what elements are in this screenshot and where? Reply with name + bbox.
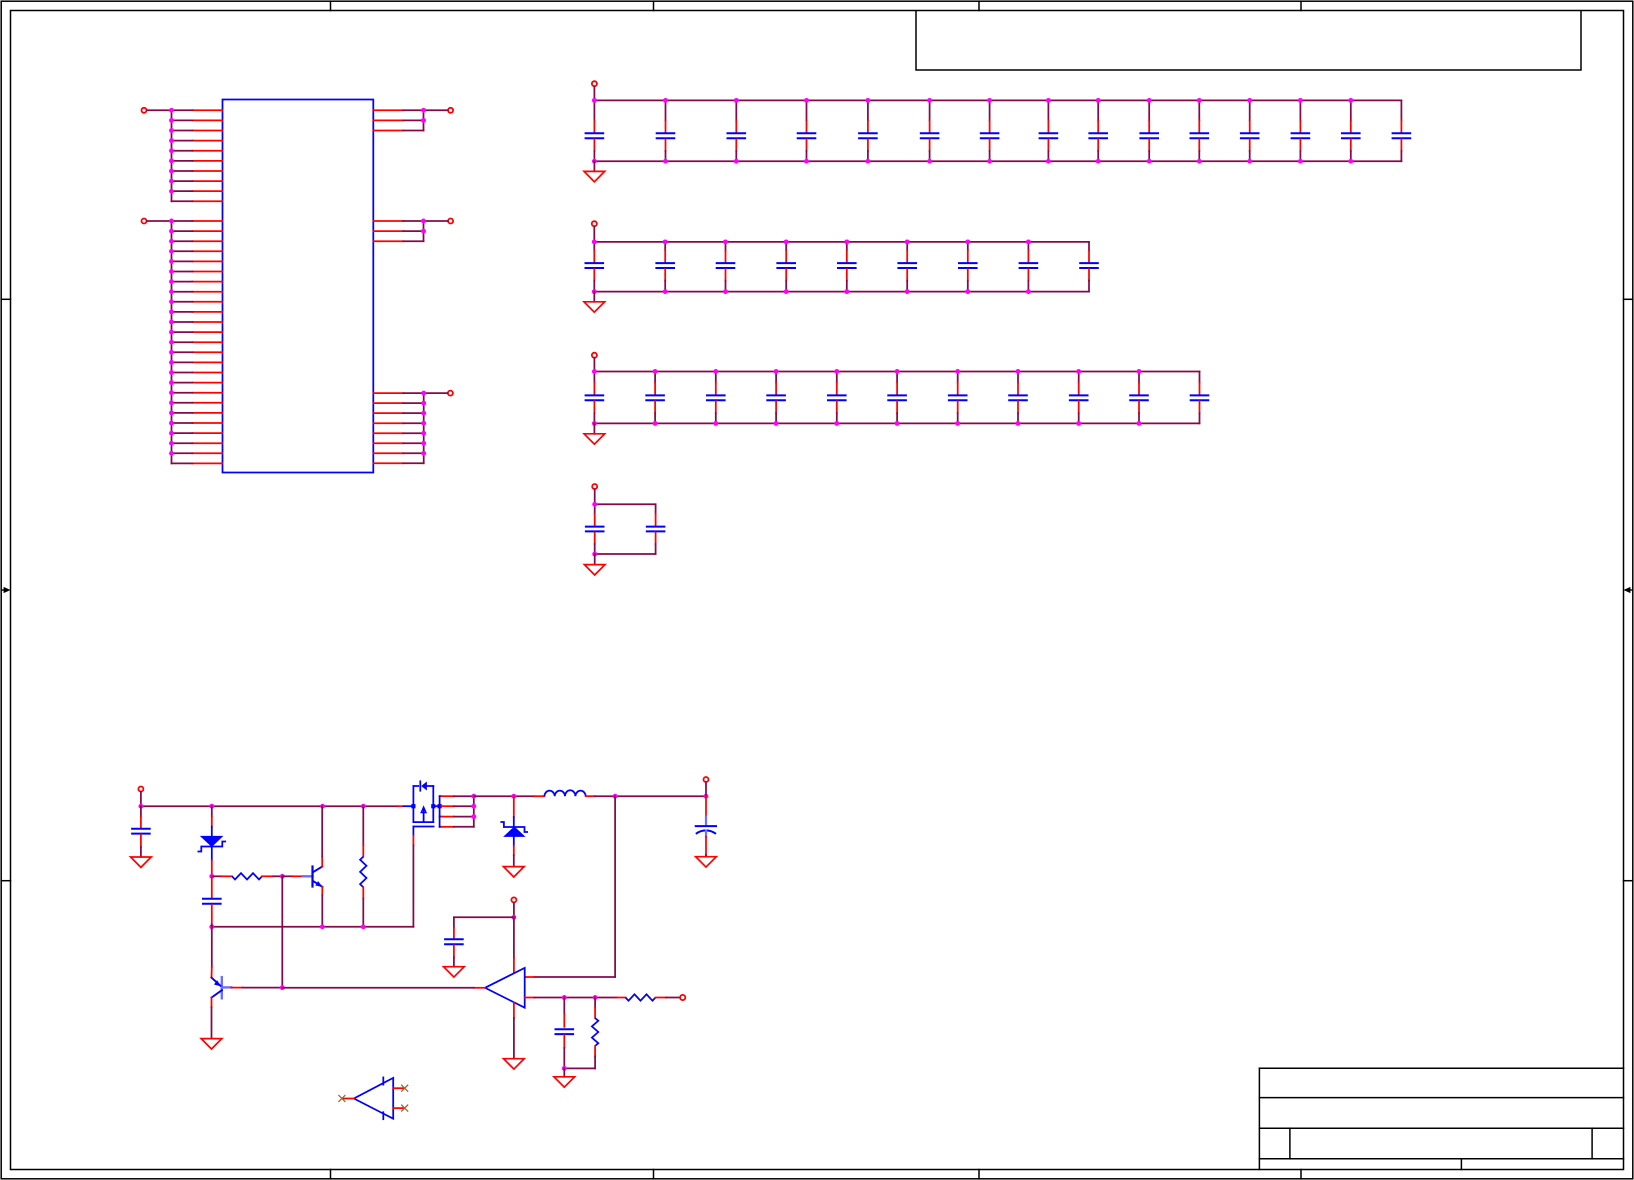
junction dots row1C14 [1348,98,1353,164]
capacitor C7 output [695,796,717,857]
node zener-bottom dot [209,874,214,879]
capacitor row1C7 [980,100,1000,161]
ground row4 [584,554,605,575]
port row2 [592,221,597,226]
junction dots gate line [209,924,365,929]
junction dots row3C8 [1016,369,1021,426]
capacitor row2C8 [1019,242,1039,292]
wire gate drop [412,836,414,927]
capacitor row1C3 [727,100,747,161]
wire L1 to output [595,795,706,797]
wire opamp vminus [513,1003,515,1059]
junction dots row2C3 [723,239,728,294]
IC U1 left pins group2 [193,221,223,463]
no-connect cross U3 output [339,1096,345,1102]
capacitor row4C2 [646,504,666,554]
resistor R2 [360,806,366,927]
ground C5 [131,857,152,867]
wire port row1 [593,87,595,101]
no-connect cross U3 input B [402,1105,408,1111]
wires pins to bus P4 [403,221,423,241]
capacitor row3C11 [1190,372,1210,424]
capacitor row1C11 [1190,100,1210,161]
ground C7 [696,857,717,867]
resistor R1 [212,873,282,879]
zener diode D1 [198,806,227,876]
op-amp U2 [485,968,525,1008]
capacitor C5 input [131,806,151,857]
capacitor row2C3 [716,242,736,292]
capacitor row2C4 [776,242,796,292]
wire mosfet stub bus [473,796,475,827]
row1 top rail [594,99,1401,101]
junction dots row1C7 [987,98,992,164]
row2 top rail [594,241,1089,243]
switch node wire [474,795,535,797]
node C9-R4 dot [562,1066,567,1071]
junction dots row4C1 [592,502,597,557]
wire port P1 to bus [147,109,172,111]
schottky diode D2 [500,796,528,866]
capacitor row4C1 [585,504,605,554]
junction dots row1C2 [663,98,668,164]
capacitor row3C7 [948,372,968,424]
junction dots minus net [562,995,598,1000]
port row3 [592,353,597,358]
capacitor C9 [555,998,575,1069]
left pin bus 1 [171,110,173,201]
port P4 [448,219,453,224]
row4 top rail [595,503,656,505]
row3 bottom rail [594,422,1199,424]
row4 bottom rail [595,553,656,555]
junction dots row2C1 [592,239,597,294]
inductor L1 [534,790,594,796]
capacitor row1C14 [1341,100,1361,161]
pin U3 input A [393,1087,403,1089]
capacitor row3C2 [645,372,665,424]
pin opamp output [474,987,485,989]
row3 top rail [594,371,1199,373]
wire R4 bottom [564,1067,595,1069]
wire port P3 to bus [424,109,448,111]
op-amp U3 unused [354,1077,393,1119]
junction dots row1C1 [592,98,597,164]
pin U3 input B [393,1107,403,1109]
junction dots row1C9 [1096,98,1101,164]
wire opamp output [282,987,473,989]
junction dots row3C1 [592,369,597,426]
junction dots row2C5 [844,239,849,294]
wires bus to pins group2 [172,221,193,463]
border centre arrow left [1,587,10,593]
wire crossing vertical [281,876,283,987]
junction dots row1C13 [1298,98,1303,164]
wire PVOUT down [705,782,707,796]
port PFB [680,995,685,1000]
row1 bottom rail [594,160,1401,162]
capacitor row1C4 [797,100,817,161]
wire port row2 [593,227,595,242]
node vref dot [511,915,516,920]
wire Q1 collector [321,806,323,866]
junction dots row1C12 [1247,98,1252,164]
junction dots P5 [421,391,426,456]
junction dots mosfet bus [471,794,476,819]
junction dots row2C6 [905,239,910,294]
transistor Q1 [303,867,323,888]
junction dots row1C5 [865,98,870,164]
wire port P2 to bus [147,220,172,222]
junction dots row2C7 [965,239,970,294]
border zone ticks top and bottom [331,1,1302,1179]
wire down to Q2 [211,927,213,978]
transistor Q2 [212,977,232,998]
capacitor row1C2 [656,100,676,161]
junction dots row3C2 [653,369,658,426]
port P3 [448,108,453,113]
capacitor row3C1 [585,372,605,424]
IC U1 left pins group1 [193,110,223,201]
wire Q2 collector down [211,998,213,1039]
junction dots row3C6 [895,369,900,426]
ground U2 [504,1059,525,1069]
title block [1259,1068,1623,1169]
right pin bus P4 [423,221,425,241]
junction dots row1C3 [734,98,739,164]
ground Q2 [201,1039,222,1049]
resistor R4 [592,998,598,1069]
wires pins to bus P5 [403,393,423,463]
capacitor row1C8 [1039,100,1059,161]
capacitor row2C5 [837,242,857,292]
wire Q1 emitter [321,887,323,927]
capacitor row2C1 [585,242,605,292]
wire PVREF down [513,903,515,918]
capacitor row1C1 [585,100,605,161]
left pin bus 2 [171,221,173,463]
IC U1 right pins P5 [373,393,403,463]
wire vref to opamp [513,917,515,972]
capacitor row1C9 [1088,100,1108,161]
port P5 [448,391,453,396]
port PVREF [511,897,516,902]
IC U1 right pins P3 [373,110,403,130]
border zone ticks left and right [1,299,1633,880]
node output dot [704,794,709,799]
no-connect cross U3 input A [402,1085,408,1091]
junction dots P4 [421,219,426,234]
junction dots row3C5 [834,369,839,426]
node switch dot [511,794,516,799]
pin opamp plus input [525,976,535,978]
port PVIN [138,787,143,792]
wire minus input net [534,997,616,999]
right pin bus P5 [423,393,425,463]
capacitor row1C6 [920,100,940,161]
node output-fb dot [613,794,618,799]
junction dots row3C3 [713,369,718,426]
right pin bus P3 [423,110,425,130]
mosfet Q3 [411,781,441,835]
wire feedback [534,796,615,977]
wire port P5 to bus [424,392,448,394]
port row1 [592,81,597,86]
junction dots row3C9 [1076,369,1081,426]
port PVOUT [704,777,709,782]
node R1-right dot [280,874,285,879]
port row4 [592,484,597,489]
junction dots row2C8 [1026,239,1031,294]
capacitor row3C9 [1069,372,1089,424]
capacitor row3C6 [887,372,907,424]
junction dots input rail [138,804,365,809]
capacitor row1C13 [1291,100,1311,161]
junction dots P3 [421,108,426,123]
wire port row3 [593,358,595,372]
ground D2 [504,867,525,877]
ground C8 [444,967,465,977]
junction dots row1C11 [1197,98,1202,164]
junction dots row2C4 [784,239,789,294]
node Q2-base dot [280,985,285,990]
capacitor row2C7 [958,242,978,292]
capacitor row2C2 [655,242,675,292]
port P2 [142,219,147,224]
junction dots row2C2 [663,239,668,294]
top-right title strip box [916,11,1581,71]
junction dots group2 [169,219,174,456]
capacitor row1C5 [858,100,878,161]
border centre arrow right [1624,587,1633,593]
wire vref left [454,917,514,927]
junction dots row1C6 [927,98,932,164]
capacitor row3C8 [1008,372,1028,424]
pin opamp minus input [525,997,535,999]
capacitor row3C10 [1129,372,1149,424]
input rail wire [141,805,398,807]
wire Q2 base [231,987,282,989]
ground C9 [554,1077,575,1087]
capacitor row1C15 [1392,100,1412,161]
port P1 [142,108,147,113]
wires pins to bus P3 [403,110,423,130]
junction dots row1C10 [1147,98,1152,164]
capacitor row3C4 [766,372,786,424]
mosfet Q3 source drain stubs [442,796,474,827]
capacitor row1C12 [1240,100,1260,161]
junction dots row1C4 [804,98,809,164]
junction dots row3C10 [1137,369,1142,426]
capacitor C6 [202,876,222,927]
ground row3 [584,423,605,444]
IC U1 right pins P4 [373,221,403,241]
wire port row4 [594,489,596,504]
capacitor row1C10 [1139,100,1159,161]
wire gate line [212,926,414,928]
wire C9 gnd stub [563,1068,565,1076]
row2 bottom rail [594,291,1089,293]
pin MOSFET source lead [398,805,414,807]
IC U1 body [223,100,374,473]
junction dots row1C8 [1046,98,1051,164]
wire port P4 to bus [424,220,448,222]
capacitor row3C3 [706,372,726,424]
junction dots row3C7 [955,369,960,426]
resistor R3 [617,994,680,1000]
wire R1 to Q1 base [282,875,303,877]
ground row2 [584,292,605,313]
wires bus to pins group1 [172,110,193,201]
pin U3 output [343,1098,354,1100]
capacitor row3C5 [827,372,847,424]
wire PVIN down [140,792,142,806]
capacitor C8 [444,928,464,967]
junction dots row3C4 [774,369,779,426]
junction dots group1 [169,108,174,194]
capacitor row2C9 [1079,242,1099,292]
ground row1 [584,161,605,182]
capacitor row2C6 [897,242,917,292]
